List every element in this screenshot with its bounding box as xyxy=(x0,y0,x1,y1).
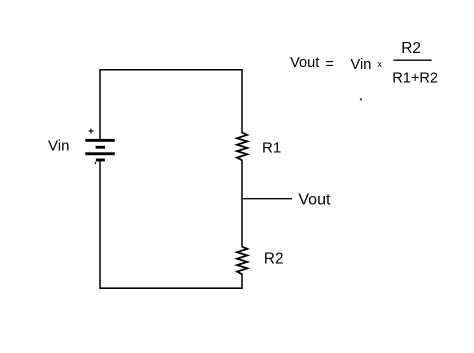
wire right lower: R2 to bottom wire xyxy=(241,274,243,289)
battery V1 (Vin source) xyxy=(85,129,115,165)
formula fraction bar xyxy=(393,59,431,61)
battery plus terminal mark xyxy=(89,129,94,134)
svg-text:R2: R2 xyxy=(401,40,421,57)
resistor R1 xyxy=(237,133,247,161)
svg-text:Vout: Vout xyxy=(298,192,331,209)
svg-text:Vin: Vin xyxy=(351,57,372,73)
wire bottom: battery - to R2 bottom xyxy=(99,287,242,289)
label R2 xyxy=(264,251,284,268)
formula multiply sign xyxy=(377,59,382,69)
formula text "Vin" xyxy=(351,57,372,73)
svg-text:x: x xyxy=(377,59,382,69)
svg-text:R1: R1 xyxy=(262,139,281,156)
wire Vout stub: node between R1 and R2 out to label xyxy=(241,198,292,200)
wire left upper: top wire to battery positive plate xyxy=(99,69,101,140)
label R1 xyxy=(262,139,281,156)
svg-text:=: = xyxy=(325,57,334,73)
label Vout (output node) xyxy=(298,192,331,209)
svg-text:R2: R2 xyxy=(264,251,284,268)
stray ink dot xyxy=(360,98,362,100)
wire left lower: battery negative to bottom wire xyxy=(99,161,101,288)
formula text "Vout =" xyxy=(290,55,334,72)
svg-text:Vin: Vin xyxy=(48,137,69,154)
wire right upper: top wire to R1 xyxy=(241,69,243,133)
battery minus tick mark xyxy=(94,162,97,164)
formula numerator R2 xyxy=(401,40,421,57)
label Vin xyxy=(48,137,69,154)
wire top: battery + to R1 top xyxy=(99,69,242,71)
svg-text:Vout: Vout xyxy=(290,55,319,71)
resistor R2 xyxy=(237,247,247,275)
formula denominator R1+R2 xyxy=(392,71,438,87)
wire right middle: R1 to R2 through Vout node xyxy=(241,160,243,247)
svg-text:R1+R2: R1+R2 xyxy=(392,71,438,87)
